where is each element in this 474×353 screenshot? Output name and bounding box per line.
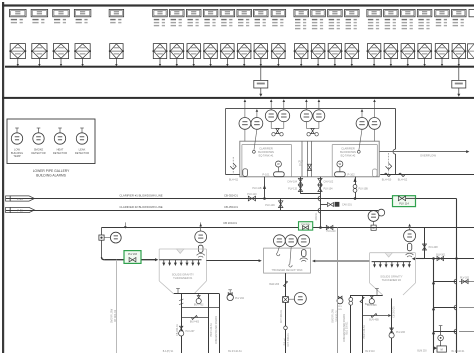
svg-text:PLV-206: PLV-206 [396, 331, 406, 334]
instrument PIT 203-2 [368, 211, 379, 222]
sample port line right [380, 174, 474, 176]
I/O tag box group 3 [53, 9, 70, 16]
I/O tag box group 16 [328, 9, 343, 16]
svg-text:M: M [373, 226, 375, 230]
instrument LT 341 [409, 228, 411, 230]
signal stem group 15 [317, 58, 319, 64]
I/O tag box group 20 [401, 9, 416, 16]
svg-text:P-102: P-102 [348, 172, 356, 176]
svg-text:BLW-206: BLW-206 [269, 283, 279, 286]
instrument diamond symbol group 11 [238, 44, 251, 59]
svg-text:BLH-410: BLH-410 [382, 179, 392, 182]
I/O tag box group 13 [271, 9, 286, 16]
instrument LIT 330-1 [200, 222, 202, 231]
signal header left drop [225, 109, 227, 175]
valve BUV-402 [198, 294, 200, 296]
I/O tag box group 19 [384, 9, 399, 16]
sample port line left [226, 174, 240, 176]
instrument diamond symbol group 20 [401, 44, 414, 59]
tee stub [177, 289, 179, 294]
svg-text:THICKENER DECANT TANK: THICKENER DECANT TANK [271, 269, 302, 272]
pump discharge tank1 [300, 177, 302, 194]
thickener 1 distribution arrows [159, 259, 201, 261]
analyzer manifold tank 2 [305, 122, 307, 129]
signal valve PLV-305 [337, 298, 343, 304]
svg-text:OVERFLOW: OVERFLOW [332, 308, 335, 322]
signal arrow PLV-203 [124, 222, 126, 227]
capsule on drop [349, 298, 353, 302]
svg-text:PSW 100-S1: PSW 100-S1 [210, 322, 213, 336]
signal header line [226, 108, 396, 110]
level gauge tank1 [243, 169, 248, 177]
valve PLV-206 [390, 328, 394, 331]
svg-text:EQ TANK #2: EQ TANK #2 [341, 154, 356, 158]
LT 125-2 dip [374, 129, 376, 141]
svg-text:CONCENTRATED SOLIDS: CONCENTRATED SOLIDS [343, 314, 346, 343]
thickener 2 distribution arrows [372, 261, 411, 263]
recycle rung [182, 317, 209, 319]
instrument diamond symbol group 17 [345, 44, 358, 59]
I/O tag box group 18 [367, 9, 382, 16]
instrument diamond symbol group 8 [187, 44, 200, 59]
signal stem group 10 [226, 58, 228, 64]
instrument diamond symbol group 6 [153, 44, 166, 59]
instrument diamond symbol group 16 [328, 44, 341, 59]
I/O tag box group 14 [294, 9, 309, 16]
svg-text:PLV-302: PLV-302 [460, 276, 470, 279]
signal stem group 3 [60, 58, 62, 64]
bus interface box at x=458.8 [458, 58, 460, 80]
svg-text:CAV-201: CAV-201 [342, 203, 352, 206]
flex joint decant [284, 281, 288, 287]
svg-text:CLARIFIER: CLARIFIER [341, 147, 355, 151]
signal stem group 1 [17, 58, 19, 64]
cross rung left [182, 307, 220, 309]
building alarms box [7, 119, 95, 164]
hop over line 2 [318, 208, 320, 213]
level gauge tank2 [372, 169, 377, 177]
I/O tag box group 22 [435, 9, 450, 16]
green control valve PLV-203 [124, 251, 141, 264]
thickener 2 shell [370, 252, 416, 254]
instrument diamond symbol group 4 [75, 44, 90, 59]
svg-text:BUV-40B: BUV-40B [369, 320, 379, 322]
clarifier 1 blowdown line [6, 198, 393, 200]
instrument diamond symbol group 1 [10, 44, 25, 59]
signal stem group 17 [351, 58, 353, 64]
analyzer manifold tank 1 [270, 122, 272, 129]
signal valve PLV-202 [229, 290, 231, 294]
signal bus line upper [5, 66, 474, 68]
check valve CHV-102 [318, 178, 322, 181]
instrument diamond symbol group 18 [367, 44, 380, 59]
signal bus line lower [2, 97, 474, 99]
motor W tank2 [337, 161, 343, 167]
instrument FIT 338-1 [288, 298, 294, 300]
svg-text:BLV-301: BLV-301 [436, 254, 446, 257]
svg-text:BLM 203: BLM 203 [417, 351, 427, 353]
instrument LSHH 339-1 [274, 235, 286, 247]
I/O tag box group 6 [153, 9, 168, 16]
drawing frame left border [2, 2, 4, 353]
right column riser 2 [433, 259, 435, 353]
svg-text:CONCENTRATED SOLIDS: CONCENTRATED SOLIDS [215, 316, 218, 345]
instrument FIR 335 [104, 237, 110, 239]
right column riser 1 [456, 199, 458, 353]
svg-text:CLARIFIER: CLARIFIER [259, 147, 273, 151]
instrument diamond symbol group 14 [295, 44, 308, 59]
instrument diamond symbol group 2 [32, 44, 47, 59]
svg-text:PLV-104: PLV-104 [324, 187, 334, 190]
I/O tag box group 8 [186, 9, 201, 16]
thickener 2 weir notch [385, 253, 392, 257]
thickener feed header CB-200 [102, 227, 474, 229]
svg-text:DCT 400-D1: DCT 400-D1 [287, 333, 290, 347]
decant feed from thickener 2 [315, 260, 370, 262]
signal stem group 6 [159, 58, 161, 64]
decant transfer line [206, 260, 259, 262]
svg-text:SOLIDS GRAVITY: SOLIDS GRAVITY [172, 272, 194, 276]
I/O tag box group 7 [170, 9, 185, 16]
cross rung 3 [434, 331, 457, 333]
decant tank shell [264, 248, 311, 273]
I/O tag box group 9 [203, 9, 218, 16]
signal stem group 2 [38, 58, 40, 64]
green control valve PLV-205 [299, 222, 313, 230]
instrument diamond symbol group 3 [53, 44, 68, 59]
svg-text:OVERFLOW: OVERFLOW [110, 308, 113, 323]
clarifier tank 2 walls [332, 144, 377, 146]
feed header left drop [101, 228, 103, 236]
svg-text:PLV-11B: PLV-11B [252, 187, 261, 190]
svg-text:P-101: P-101 [262, 172, 270, 176]
svg-text:CLARIFIER #1 BLOWDOWN LINE: CLARIFIER #1 BLOWDOWN LINE [119, 193, 162, 197]
overflow drop right [395, 109, 397, 150]
flow element FE-338 [283, 297, 289, 303]
drain vertical tank2 to line1 [355, 177, 357, 199]
svg-text:P-35: P-35 [17, 197, 23, 201]
instrument diamond symbol group 9 [204, 44, 217, 59]
clarifier enclosure [240, 141, 379, 177]
svg-text:DETECTOR: DETECTOR [53, 151, 67, 155]
svg-text:PSW 100-S1: PSW 100-S1 [363, 324, 366, 338]
svg-text:CHV-104: CHV-104 [287, 181, 297, 184]
instrument diamond symbol group 23 [452, 44, 465, 59]
svg-text:PLV-207: PLV-207 [186, 330, 196, 333]
cb300 drop [391, 298, 393, 353]
signal stem group 4 [82, 58, 84, 64]
svg-text:CB 200-D1: CB 200-D1 [223, 221, 237, 225]
LSHH 125-1 dip tube [254, 129, 257, 150]
svg-text:TEMP: TEMP [13, 154, 20, 158]
svg-text:OVERFLOW: OVERFLOW [420, 154, 436, 158]
I/O tag box group 10 [220, 9, 235, 16]
svg-text:LOWER PIPE GALLERY: LOWER PIPE GALLERY [33, 169, 70, 173]
svg-text:DP 400-D1: DP 400-D1 [335, 309, 338, 321]
signal stem group 18 [373, 58, 375, 64]
svg-text:BLOWDOWN: BLOWDOWN [340, 150, 356, 154]
svg-text:EQ TANK #1: EQ TANK #1 [259, 154, 274, 158]
svg-text:BUILDING ALARMS: BUILDING ALARMS [36, 173, 67, 177]
instrument diamond symbol group 22 [435, 44, 448, 59]
I/O tag box group 15 [311, 9, 326, 16]
LT 125-1 dip [244, 129, 246, 141]
valve PLV-207 [180, 326, 183, 328]
alarm instrument TSL-312 [16, 128, 18, 133]
svg-text:BLG 300-D1: BLG 300-D1 [347, 321, 349, 334]
svg-text:SOLIDS GRAVITY: SOLIDS GRAVITY [380, 274, 402, 278]
thickener 1 weir notch [177, 249, 184, 253]
overflow standpipe grey [116, 260, 118, 353]
signal stem group 12 [260, 58, 262, 64]
valve PLV-104 [318, 185, 322, 188]
valve PLV-208 [423, 244, 427, 247]
svg-text:CB 300-D1: CB 300-D1 [394, 306, 396, 318]
LSL dip [289, 247, 292, 267]
svg-text:THICKENER #1: THICKENER #1 [173, 276, 193, 280]
svg-text:THICKENER #2: THICKENER #2 [382, 278, 402, 282]
underflow right drop [219, 294, 221, 353]
instrument diamond symbol group 15 [311, 44, 324, 59]
underflow left drop [181, 294, 183, 353]
pump discharge tank2 drop [320, 177, 322, 228]
instrument LSL 339-2 [285, 235, 297, 247]
signal stem group 5 [115, 58, 117, 64]
valve PLV-109 drop [280, 199, 282, 211]
instrument LSHH 125-1 [251, 118, 263, 130]
discharge jog [301, 193, 321, 195]
signal stem group 7 [176, 58, 178, 64]
partial instrument symbol at right edge [468, 44, 474, 59]
recycle rung 2 [363, 315, 389, 317]
instrument PI 131 [265, 110, 277, 122]
hop over line 1 [318, 196, 320, 201]
distribution line BLV-301 [425, 258, 474, 260]
svg-text:CB-350-D1: CB-350-D1 [224, 193, 238, 197]
decant drain [285, 273, 287, 297]
signal stem group 14 [300, 58, 302, 64]
sample port diamond [388, 153, 390, 175]
LSHH 125-2 dip tube [359, 129, 362, 150]
thickener 1 shell [159, 248, 206, 250]
hop over channel [393, 149, 395, 154]
drain port [284, 326, 288, 330]
instrument PI 133 [301, 110, 313, 122]
signal stem group 20 [407, 58, 409, 64]
I/O tag box group 17 [345, 9, 360, 16]
alarm instrument SD-314 [38, 128, 40, 133]
line 2 end circle [378, 209, 385, 216]
svg-text:DCT 300-D1: DCT 300-D1 [280, 309, 283, 323]
instrument diamond symbol group 7 [170, 44, 183, 59]
overflow line to channel [379, 151, 466, 153]
I/O tag box group 5 [109, 9, 124, 16]
instrument LT 125-2 [369, 118, 381, 130]
svg-text:PLV 203: PLV 203 [128, 253, 138, 256]
svg-text:200-S1: 200-S1 [315, 212, 318, 220]
hose connector BLH-410 [384, 173, 390, 176]
svg-text:CHV-102: CHV-102 [324, 181, 334, 184]
flex drop BUV-408 [362, 295, 364, 353]
svg-text:BUV-408: BUV-408 [365, 304, 375, 306]
LSHH dip [277, 247, 280, 256]
signal stem group 19 [390, 58, 392, 64]
I/O tag box group 4 [74, 9, 91, 16]
signal stem group 9 [210, 58, 212, 64]
signal stem group 8 [193, 58, 195, 64]
instrument LT 339-3 [298, 235, 310, 247]
junction dot line3 [319, 226, 322, 229]
sample port BLH-409 [232, 157, 234, 175]
svg-text:PLV-110: PLV-110 [247, 193, 257, 196]
instrument AIT 132-1 [278, 110, 290, 122]
svg-text:DETECTOR: DETECTOR [31, 151, 45, 155]
signal stem group 23 [458, 58, 460, 64]
I/O tag box group 21 [417, 9, 432, 16]
motor W tank1 [275, 161, 281, 167]
signal stem group 22 [441, 58, 443, 64]
svg-text:BLOWDOWN: BLOWDOWN [258, 150, 274, 154]
tee stub thickener2 [376, 289, 378, 295]
drain assembly right [440, 326, 442, 346]
clarifier 2 blowdown line [6, 210, 378, 212]
svg-text:PLV: PLV [338, 306, 343, 308]
psw drop [208, 294, 210, 353]
green control valve PLV-114 [393, 196, 416, 207]
instrument LSHH 125-2 [356, 118, 368, 130]
svg-text:PLV-210: PLV-210 [327, 230, 337, 233]
valve PLV-210 [326, 225, 329, 229]
alarm instrument TSA-316 [59, 128, 61, 133]
drain vertical tank1 to line1 [264, 177, 266, 199]
svg-text:CLARIFIER #2 BLOWDOWN LINE: CLARIFIER #2 BLOWDOWN LINE [119, 205, 162, 209]
thickener 2 feed line [415, 258, 425, 260]
partial tag box at right edge [469, 9, 474, 16]
LT 341 capsule [407, 243, 411, 250]
svg-text:BUV-403: BUV-403 [190, 322, 200, 324]
valve PLV-110 on line 1 [248, 196, 252, 201]
svg-text:BLH-412: BLH-412 [398, 179, 408, 182]
instrument diamond symbol group 19 [384, 44, 397, 59]
thickener1 underflow line [174, 293, 220, 295]
svg-text:CB-350-D1: CB-350-D1 [224, 205, 238, 209]
LIT sensor capsule [198, 245, 203, 252]
instrument diamond symbol group 13 [272, 44, 285, 59]
svg-text:M: M [441, 348, 443, 351]
svg-text:BLH-411: BLH-411 [229, 179, 239, 182]
valve CAV-201 branch [321, 204, 328, 206]
svg-text:250 mil: 250 mil [284, 338, 286, 346]
svg-text:PLV-109: PLV-109 [265, 204, 275, 207]
I/O tag box group 1 [10, 9, 27, 16]
I/O tag box group 11 [237, 9, 252, 16]
valve PLV-111 [308, 164, 312, 167]
thickener 2 feed drop [424, 228, 426, 259]
bus interface box at x=260.8 [260, 58, 262, 80]
svg-text:PLV-115: PLV-115 [288, 187, 297, 190]
pump P-102 [335, 172, 346, 177]
line tag P-35 [6, 196, 11, 201]
svg-text:DP 400-D1: DP 400-D1 [114, 309, 117, 322]
svg-text:DETECTOR: DETECTOR [75, 151, 89, 155]
svg-text:PLV 202: PLV 202 [235, 297, 245, 300]
valve BUV-406 [371, 295, 373, 296]
flow element FE-335 [99, 235, 104, 240]
clarifier tank 1 walls [242, 144, 292, 146]
instrument diamond symbol group 21 [418, 44, 431, 59]
signal stem group 13 [277, 58, 279, 64]
signal stem group 11 [243, 58, 245, 64]
cross rung PLV-302 [434, 281, 457, 283]
svg-text:PLV 114: PLV 114 [399, 201, 409, 205]
instrument AIT 132-2 [313, 110, 325, 122]
I/O tag box group 23 [452, 9, 467, 16]
decant drain lower [285, 302, 287, 353]
instrument LT 125-1 [239, 118, 251, 130]
thickener2 underflow line [351, 295, 383, 297]
cross rung 2 [434, 307, 457, 309]
instrument diamond symbol group 10 [221, 44, 234, 59]
signal stem group 16 [334, 58, 336, 64]
svg-text:111: 111 [299, 163, 303, 167]
I/O tag box group 2 [31, 9, 48, 16]
line tag P-36 [6, 207, 11, 212]
drawing frame top border [2, 4, 474, 6]
instrument diamond symbol group 12 [254, 44, 267, 59]
pump P-101 [274, 172, 285, 177]
instrument diamond symbol group 5 [110, 44, 123, 59]
valve PLV-115 [298, 185, 302, 188]
thickener 1 feed pipe [102, 257, 105, 260]
hose connector BLH-412 [399, 173, 405, 176]
signal stem group 21 [424, 58, 426, 64]
I/O tag box group 12 [254, 9, 268, 16]
svg-text:BUV-402: BUV-402 [194, 304, 204, 307]
LT 339-3 capsule [302, 250, 306, 257]
overflow drop mid grey [337, 228, 339, 353]
check valve CHV-104 [298, 178, 302, 181]
svg-text:P-36: P-36 [17, 209, 23, 213]
svg-text:PLV-10B: PLV-10B [359, 187, 369, 190]
alarm instrument LS-313 [81, 128, 83, 133]
underflow corner drop [350, 295, 352, 353]
svg-text:PLV-208: PLV-208 [429, 246, 439, 249]
inter-tank standpipes [301, 141, 303, 176]
